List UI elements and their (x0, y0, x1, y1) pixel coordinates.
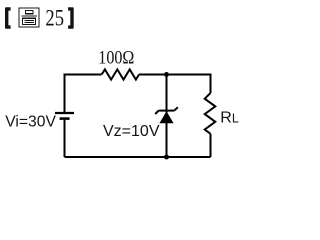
svg-text:RL: RL (220, 109, 239, 126)
svg-text:Vi=30V: Vi=30V (5, 114, 56, 131)
svg-text:25: 25 (45, 5, 64, 30)
svg-text:Vz=10V: Vz=10V (103, 123, 160, 140)
svg-text:100Ω: 100Ω (98, 49, 134, 69)
